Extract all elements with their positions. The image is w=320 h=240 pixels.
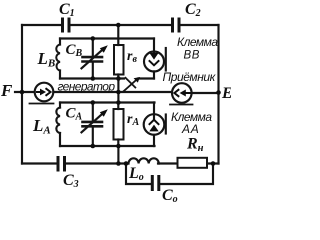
- svg-text:Lо: Lо: [128, 165, 144, 183]
- svg-text:генератор: генератор: [58, 80, 116, 94]
- svg-text:Rн: Rн: [186, 136, 204, 155]
- svg-text:F: F: [0, 81, 13, 100]
- svg-text:C2: C2: [185, 1, 201, 19]
- svg-text:АА: АА: [181, 122, 200, 136]
- svg-text:Приёмник: Приёмник: [163, 70, 217, 84]
- svg-text:LB: LB: [37, 49, 56, 70]
- svg-text:E: E: [221, 85, 231, 102]
- svg-text:C1: C1: [59, 1, 75, 19]
- svg-text:LA: LA: [32, 116, 51, 137]
- svg-text:Клемма: Клемма: [177, 35, 218, 49]
- svg-text:CA: CA: [66, 106, 83, 123]
- svg-text:rв: rв: [127, 49, 137, 65]
- svg-text:rА: rА: [127, 112, 139, 128]
- svg-text:C3: C3: [63, 172, 79, 190]
- svg-text:ВВ: ВВ: [184, 50, 201, 62]
- svg-text:Cо: Cо: [162, 187, 178, 205]
- svg-text:CB: CB: [66, 42, 83, 59]
